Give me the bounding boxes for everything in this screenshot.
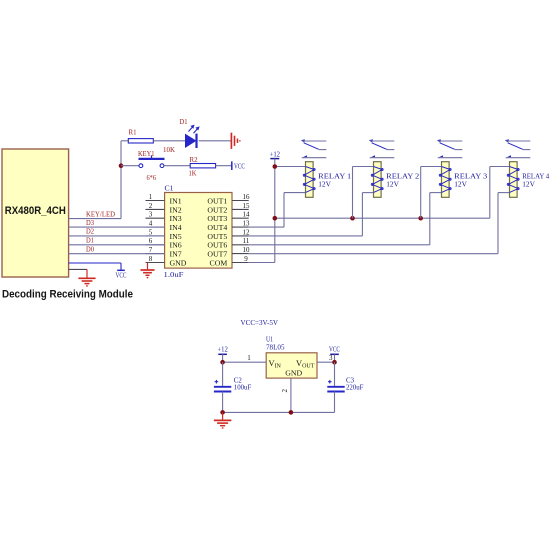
power VCC (regulator output) <box>329 345 340 362</box>
svg-text:OUT2: OUT2 <box>207 205 227 214</box>
svg-text:IN1: IN1 <box>170 196 182 205</box>
power +12 (regulator input) <box>217 345 228 362</box>
wire OUT6 to relay3 <box>249 244 430 246</box>
wire module GND <box>69 268 87 270</box>
ground (regulator) <box>214 420 232 428</box>
svg-text:12V: 12V <box>386 179 399 188</box>
svg-text:IN2: IN2 <box>170 205 182 214</box>
relay coil RELAY 4 <box>507 162 519 198</box>
pushbutton KEY1 <box>139 155 165 167</box>
svg-text:9: 9 <box>244 255 248 263</box>
wire +12 horizontal rail <box>275 217 490 219</box>
pin 7 IN7 <box>146 253 165 255</box>
svg-text:13: 13 <box>243 220 251 228</box>
svg-text:R1: R1 <box>129 129 137 137</box>
wire VOUT to VCC <box>317 361 335 363</box>
svg-text:VCC: VCC <box>329 345 340 353</box>
junction +12 / relay1 <box>273 164 278 169</box>
wire relay4 bottom <box>498 192 510 194</box>
IC C1 body <box>165 193 232 269</box>
svg-text:IN5: IN5 <box>170 232 182 241</box>
wire KEY/LED horizontal <box>69 218 121 220</box>
svg-text:12V: 12V <box>318 179 331 188</box>
wire VCC drop <box>120 263 122 270</box>
svg-text:3: 3 <box>329 354 333 362</box>
wire OUT7 to relay4 <box>249 253 498 255</box>
svg-text:14: 14 <box>243 211 251 219</box>
wire LED to ground <box>199 140 231 142</box>
wire relay1 bottom <box>284 192 306 194</box>
svg-text:11: 11 <box>243 237 250 245</box>
wire relay2 top drop <box>352 167 354 219</box>
svg-text:6: 6 <box>149 237 153 245</box>
ground (LED, rotated bars) <box>231 133 240 149</box>
module RX480R_4CH block <box>2 149 69 277</box>
wire relay1 to OUT4 <box>283 193 285 228</box>
wire relay3 top drop <box>420 167 422 219</box>
svg-text:KEY1: KEY1 <box>138 150 155 158</box>
wire D0 to IN7 <box>69 253 165 255</box>
svg-text:IN4: IN4 <box>170 223 182 232</box>
wire D1 to IN6 <box>69 244 165 246</box>
wire D3 to IN4 <box>69 226 165 228</box>
svg-text:12V: 12V <box>522 179 535 188</box>
svg-text:GND: GND <box>170 258 187 267</box>
svg-text:100uF: 100uF <box>234 383 252 392</box>
wire relay2 to OUT5 <box>361 193 363 236</box>
pin 15 OUT2 <box>232 208 249 210</box>
wire COM to +12 rail <box>249 262 275 264</box>
svg-text:8: 8 <box>149 255 153 263</box>
svg-text:D1: D1 <box>180 118 188 126</box>
svg-text:6*6: 6*6 <box>147 174 157 182</box>
wire module VCC <box>69 262 121 264</box>
power VCC (R2) <box>231 161 233 170</box>
wire R2 to VCC <box>216 165 232 167</box>
relay contact SW4 <box>505 139 530 158</box>
svg-text:15: 15 <box>243 202 251 210</box>
resistor R1 <box>121 140 128 142</box>
junction VOUT node <box>332 360 337 365</box>
pin 10 OUT7 <box>232 253 249 255</box>
svg-text:+12: +12 <box>270 151 281 159</box>
wire OUT5 to relay2 <box>249 235 363 237</box>
svg-text:IN7: IN7 <box>170 250 182 259</box>
pin 9 COM <box>232 262 249 264</box>
svg-text:D0: D0 <box>86 245 94 253</box>
power +12 (relays) <box>270 151 281 159</box>
wire relay2 bottom <box>362 192 373 194</box>
svg-text:10: 10 <box>243 246 251 254</box>
svg-text:16: 16 <box>243 193 251 201</box>
svg-text:12: 12 <box>243 228 251 236</box>
wire relay3 to OUT6 <box>429 193 431 245</box>
pin 13 OUT4 <box>232 226 249 228</box>
svg-text:OUT7: OUT7 <box>207 250 227 259</box>
junction rail left <box>220 410 225 415</box>
regulator U1 body <box>266 353 317 378</box>
svg-text:VCC: VCC <box>116 272 127 280</box>
pin 14 OUT3 <box>232 217 249 219</box>
svg-text:VCC: VCC <box>234 162 245 170</box>
wire KEY1 to R2 <box>164 165 190 167</box>
capacitor C3 <box>327 362 344 412</box>
pin 2 IN2 <box>146 208 165 210</box>
svg-text:OUT4: OUT4 <box>207 223 227 232</box>
svg-text:12V: 12V <box>454 179 467 188</box>
power VCC (module) <box>117 269 125 271</box>
wire ground rail <box>223 411 335 413</box>
svg-text:D3: D3 <box>86 219 94 227</box>
junction rail GND <box>289 410 294 415</box>
wire ground drop <box>86 269 88 277</box>
svg-text:IN3: IN3 <box>170 214 182 223</box>
wire U1 GND pin drop <box>290 378 292 412</box>
wire relay3 top <box>421 166 442 168</box>
pin 4 IN4 <box>146 226 165 228</box>
pin 11 OUT6 <box>232 244 249 246</box>
svg-text:10K: 10K <box>163 146 176 154</box>
svg-text:1K: 1K <box>189 169 198 177</box>
pin 6 IN6 <box>146 244 165 246</box>
svg-text:VCC=3V-5V: VCC=3V-5V <box>241 318 279 327</box>
wire +12 to relay1 top <box>277 166 306 168</box>
svg-text:OUT3: OUT3 <box>207 214 227 223</box>
svg-text:COM: COM <box>210 258 228 267</box>
svg-text:RX480R_4CH: RX480R_4CH <box>5 205 66 217</box>
svg-text:2: 2 <box>281 389 289 393</box>
wire relay4 top <box>490 166 510 168</box>
wire +12 to VIN <box>223 361 267 363</box>
relay contact SW3 <box>437 139 462 158</box>
svg-text:Decoding Receiving Module: Decoding Receiving Module <box>2 289 133 301</box>
ground (C1 GND) <box>140 270 154 278</box>
wire KEY/LED vertical to key circuit <box>120 141 122 219</box>
junction rail / relay2 <box>350 216 355 221</box>
svg-text:7: 7 <box>149 246 153 254</box>
relay coil RELAY 2 <box>371 162 383 198</box>
wire pin8 ground drop <box>147 263 149 270</box>
wire +12 vertical rail <box>274 159 276 263</box>
pin 16 OUT1 <box>232 200 249 202</box>
relay coil RELAY 1 <box>303 162 315 198</box>
relay contact SW2 <box>369 139 394 158</box>
svg-text:3: 3 <box>149 211 153 219</box>
pin 8 GND <box>146 262 165 264</box>
wire OUT4 to relay1 <box>249 226 284 228</box>
svg-text:R2: R2 <box>190 156 198 164</box>
svg-text:+12: +12 <box>217 345 228 353</box>
junction rail / relay3 <box>418 216 423 221</box>
svg-text:220uF: 220uF <box>346 383 364 392</box>
svg-text:OUT5: OUT5 <box>207 232 227 241</box>
svg-text:78L05: 78L05 <box>266 342 285 351</box>
wire relay4 top drop <box>489 167 491 219</box>
svg-text:D1: D1 <box>86 237 94 245</box>
wire relay4 to OUT7 <box>497 193 499 254</box>
relay contact SW1 <box>301 139 326 158</box>
svg-text:1.0uF: 1.0uF <box>164 270 185 279</box>
wire to earth ground <box>222 412 224 419</box>
LED D1 <box>185 125 200 148</box>
ground (module) <box>78 278 95 286</box>
svg-text:D2: D2 <box>86 228 94 236</box>
wire relay3 bottom <box>430 192 442 194</box>
junction VIN node <box>220 360 225 365</box>
relay coil RELAY 3 <box>439 162 451 198</box>
svg-text:KEY/LED: KEY/LED <box>86 210 115 218</box>
wire D2 to IN5 <box>69 235 165 237</box>
svg-text:C1: C1 <box>165 183 174 192</box>
svg-text:OUT6: OUT6 <box>207 241 227 250</box>
svg-text:4: 4 <box>149 220 153 228</box>
resistor R2 <box>190 164 215 168</box>
wire relay2 top <box>353 166 374 168</box>
svg-text:5: 5 <box>149 228 153 236</box>
capacitor C2 <box>214 362 231 412</box>
svg-text:1: 1 <box>247 354 251 362</box>
junction +12 rail <box>273 216 278 221</box>
svg-text:1: 1 <box>149 193 153 201</box>
svg-text:OUT1: OUT1 <box>207 196 227 205</box>
svg-text:IN6: IN6 <box>170 241 182 250</box>
pin 3 IN3 <box>146 217 165 219</box>
pin 12 OUT5 <box>232 235 249 237</box>
svg-text:2: 2 <box>149 202 153 210</box>
svg-text:GND: GND <box>285 369 302 378</box>
wire to KEY1 <box>121 165 139 167</box>
junction key node <box>119 163 124 168</box>
pin 5 IN5 <box>146 235 165 237</box>
pin 1 IN1 <box>146 200 165 202</box>
